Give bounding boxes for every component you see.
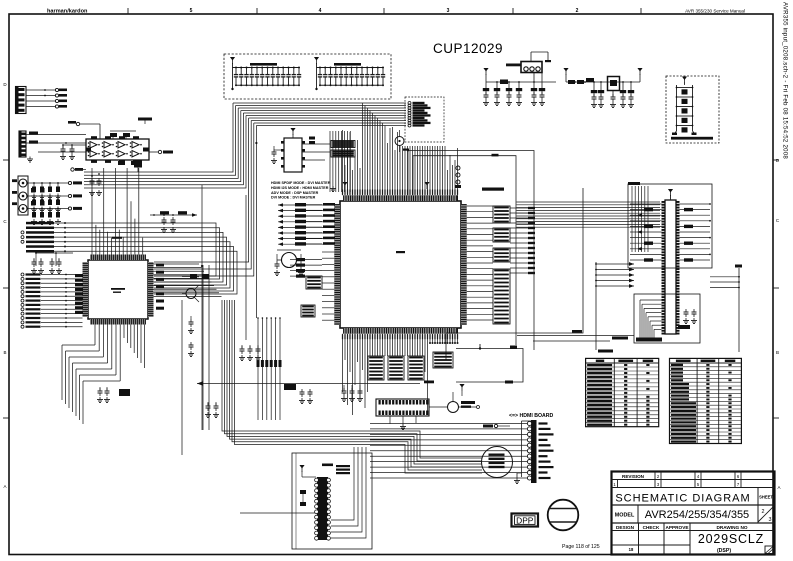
svg-text:DESIGN: DESIGN — [616, 525, 635, 530]
power flags above U301 — [330, 182, 430, 192]
ground at J302 — [27, 157, 33, 163]
connector CN303 HDMI — [514, 420, 554, 484]
resistor network RN303 — [331, 141, 355, 158]
phono symbol circle — [548, 500, 579, 531]
connector J310 DIP — [376, 399, 429, 430]
resistor column RN301 — [295, 203, 335, 246]
capacitor row C350 under DSP — [341, 385, 363, 402]
capacitor C407 C408 under U401 — [531, 73, 545, 106]
capacitor cluster C370 — [97, 387, 130, 403]
op-amp U301 quad array — [86, 136, 149, 163]
test point TP301 — [68, 121, 100, 139]
pin labels below U301 — [343, 334, 458, 339]
svg-text:CUP12029: CUP12029 — [433, 41, 503, 56]
component cluster C376 labels — [284, 384, 313, 404]
label CS49400 near U301 — [482, 188, 504, 191]
svg-text:<=> HDMI BOARD: <=> HDMI BOARD — [509, 413, 553, 419]
resistor pair above U301 — [110, 131, 136, 139]
resistor bank RN310 — [433, 352, 453, 368]
svg-text:2029SCLZ: 2029SCLZ — [698, 532, 764, 546]
label above table — [598, 350, 613, 353]
test point TP302 pair — [71, 168, 86, 171]
power flag AVDD mid — [563, 68, 568, 82]
terminal VOLUME — [483, 424, 510, 427]
header text AVR 355/230 Service Manual — [685, 9, 745, 14]
svg-text:A: A — [777, 485, 780, 490]
svg-text:CHECK: CHECK — [643, 525, 660, 530]
jumper group below DSP left — [257, 317, 282, 420]
wire pair into lower connector box — [517, 336, 634, 342]
series resistors RN302 grid — [290, 258, 322, 278]
wires CN302 to right edge — [710, 265, 742, 353]
resistor R330 groups at CN301 — [300, 490, 306, 506]
RCA input networks — [12, 179, 82, 224]
resistor bank RN307 — [368, 356, 384, 380]
connector J301 — [16, 87, 68, 114]
capacitor cluster C372 — [205, 402, 219, 418]
wire CN301 input — [240, 512, 315, 514]
wires right of RN blocks — [510, 207, 535, 274]
wire box connector upper outline — [628, 182, 712, 268]
svg-text:2: 2 — [576, 8, 579, 14]
label R309 — [138, 118, 152, 125]
capacitor cluster C374 — [239, 345, 261, 361]
wire fan U302 right to bus — [154, 264, 222, 310]
capacitor cluster at bus end — [89, 173, 102, 195]
title block drawing number — [698, 532, 774, 554]
svg-text:REVISION: REVISION — [622, 474, 645, 479]
main DSP U301 CS49700 — [334, 195, 466, 333]
label DPP box — [512, 514, 539, 527]
svg-text:5: 5 — [190, 8, 193, 14]
vertical wires oscillator to DSP — [330, 131, 350, 192]
power flag at Q302 — [459, 384, 464, 396]
wires CN302 left side — [630, 204, 662, 262]
RCA jack block J303 — [18, 176, 28, 215]
capacitor C330 C331 at oscillator — [271, 146, 277, 164]
title block model row — [612, 505, 775, 523]
resistor blobs right of oscillator — [309, 137, 315, 145]
mode text annotation — [271, 181, 331, 200]
svg-text:4: 4 — [319, 8, 322, 14]
connector J302 — [19, 131, 86, 157]
title block outline — [612, 472, 775, 555]
table DATA to CS49700 SDRAM mapping — [586, 358, 659, 426]
svg-text:SCHEMATIC DIAGRAM: SCHEMATIC DIAGRAM — [615, 493, 750, 505]
svg-text:HDMI I2S MODE : HDMI MASTER: HDMI I2S MODE : HDMI MASTER — [271, 186, 329, 190]
pad circles column top right of DSP — [455, 166, 461, 188]
circled junction P301 — [395, 130, 404, 152]
svg-text:DRAWING NO: DRAWING NO — [717, 525, 748, 530]
page number text — [562, 544, 600, 550]
wires wrap around CN301 — [331, 447, 366, 538]
pin labels above U301 — [343, 190, 458, 195]
ferrite L401 — [608, 77, 620, 91]
power flag CN301 — [299, 465, 316, 477]
capacitor C360 C361 in lower box — [678, 309, 697, 329]
resistor R401 on rail — [500, 80, 508, 85]
svg-text:A: A — [3, 484, 6, 489]
label CN301 text — [322, 464, 350, 475]
label CUP12029 — [433, 41, 503, 56]
connector CN302 vertical — [662, 189, 680, 335]
svg-text:Page 118 of 125: Page 118 of 125 — [562, 544, 600, 550]
svg-text:B: B — [776, 350, 779, 355]
crystal Y301 — [274, 250, 304, 276]
resistor network RN304 — [306, 276, 322, 289]
resistor network RN306 blocks — [493, 206, 510, 324]
svg-text:SHEET: SHEET — [759, 495, 773, 500]
svg-text:2: 2 — [762, 509, 765, 515]
arrow wires to connector box — [595, 262, 634, 288]
wire bus main horizontal — [84, 103, 406, 430]
svg-text:MODEL: MODEL — [615, 513, 635, 519]
svg-text:HDMI SPDIF MODE : DVI MASTER: HDMI SPDIF MODE : DVI MASTER — [271, 181, 331, 185]
capacitor C302 C303 with ground — [60, 144, 86, 159]
svg-text:(DSP): (DSP) — [717, 548, 731, 554]
resistor network RN305 — [301, 305, 315, 317]
annotation circle spare pins — [482, 447, 513, 478]
wire top-right rail — [486, 81, 556, 83]
EDID pull-up resistor ladder box — [666, 76, 719, 143]
regulator U401 — [506, 62, 542, 73]
resistor blobs U302 left wires — [75, 274, 83, 314]
capacitor bank C301-C313 — [230, 57, 301, 90]
resistor pair below U301 — [118, 160, 138, 165]
table Address to CS49700 SDRAM mapping — [670, 358, 742, 443]
svg-text:AVR 355/230 Service Manual: AVR 355/230 Service Manual — [685, 9, 745, 14]
svg-text:3: 3 — [769, 517, 772, 523]
wire bus vertical below U302 bus — [182, 265, 482, 473]
title block design check approve row — [612, 523, 775, 555]
svg-text:AVR355 input_0208.sch-2 - Fr: AVR355 input_0208.sch-2 - Fri Feb 08 15:… — [782, 2, 789, 159]
power flag VDD top right — [483, 68, 488, 82]
svg-text:18: 18 — [629, 547, 634, 552]
resistor cluster R320 — [182, 274, 209, 279]
svg-text:DPP: DPP — [516, 515, 534, 525]
resistor bank RN309 — [408, 356, 424, 380]
wire fan U302 top — [92, 168, 143, 255]
bus labels group SD lines — [21, 222, 237, 294]
wires bus entering connector box — [632, 186, 648, 252]
label HDMI BOARD — [509, 413, 553, 419]
wire loops around DSP right — [403, 149, 534, 351]
wires CN302 right side — [680, 203, 711, 262]
rotated filename text right margin — [782, 2, 789, 159]
wire box CN301 outline — [292, 453, 372, 549]
capacitor clusters C319 C320 — [31, 252, 73, 273]
oscillator X301 — [274, 128, 330, 172]
title block schematic diagram row — [612, 488, 775, 524]
bus labels group data lines to U302 — [21, 273, 83, 328]
transistor Q302 — [429, 392, 480, 413]
resistor R312 block — [134, 161, 142, 173]
svg-text:AVR254/255/354/355: AVR254/255/354/355 — [645, 509, 749, 521]
decoupling capacitor bank box — [224, 54, 391, 99]
title block revision rows — [612, 472, 775, 488]
svg-text:ADV MODE : DSP MASTER: ADV MODE : DSP MASTER — [271, 191, 319, 195]
capacitor C413 under L401 — [610, 91, 616, 108]
wires CN302 bottom staircase — [636, 300, 662, 342]
wires HDMI harness — [370, 424, 527, 479]
wire loop CLK right — [424, 188, 596, 383]
wire feedback loop U401 — [531, 52, 551, 62]
wires feed to connector CN302 — [517, 202, 661, 227]
resistor R402 R403 series — [568, 78, 594, 84]
power flag right — [637, 68, 642, 82]
resistor bank RN308 — [388, 356, 404, 380]
wire box below DSP right — [456, 344, 523, 384]
harman kardon logo text — [47, 9, 88, 15]
wire fan U301 left — [278, 203, 334, 320]
svg-text:APPROVE: APPROVE — [666, 525, 689, 530]
filter cluster R315 C315 — [150, 211, 197, 232]
svg-text:3: 3 — [447, 8, 450, 14]
svg-text:DVI MODE : DVI MASTER: DVI MODE : DVI MASTER — [271, 196, 316, 200]
microcontroller U302 — [83, 237, 154, 325]
capacitor group C409-C412 — [591, 82, 634, 108]
capacitor group C401-C406 — [483, 82, 522, 106]
capacitor C340 C341 — [188, 316, 194, 357]
arrow wire DSP control — [197, 381, 420, 385]
transistor Q301 — [182, 285, 199, 302]
terminal VOL_OUT — [149, 150, 173, 153]
wire mid rail — [566, 81, 640, 83]
wire fan U302 bottom staircase — [62, 325, 144, 425]
capacitor bank C314-C326 — [314, 57, 385, 90]
wire fan U301 top — [343, 103, 458, 195]
svg-text:B: B — [3, 350, 6, 355]
wire box connector lower outline — [634, 294, 700, 343]
wire fan U301 bottom — [343, 334, 459, 415]
connector CN301 — [315, 477, 331, 540]
wire fan U301 right — [467, 206, 493, 320]
terminal box off-page connectors — [405, 97, 444, 142]
svg-text:harman/kardon: harman/kardon — [47, 9, 88, 15]
